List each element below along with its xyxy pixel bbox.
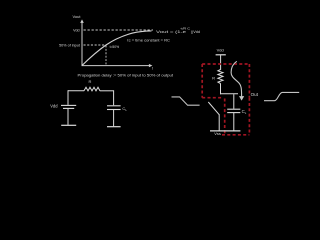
svg-text:t=50%: t=50% [110,45,120,49]
inverter model: switch wire to Vss [218,114,220,131]
inverter model: wire Vdd to resistor [220,55,222,70]
graph t=50% vertical dashed line [105,46,107,66]
inverter model: capacitor C bottom plate [227,112,240,114]
RC circuit: top wire left segment [68,90,84,92]
graph x-axis arrowhead [149,64,153,67]
output waveform (rising edge) [264,92,299,100]
svg-text:Propagation delay := 50% of in: Propagation delay := 50% of input to 50%… [78,73,175,77]
svg-text:Vout: Vout [72,14,81,19]
RC circuit: top wire right segment [100,90,114,92]
inverter model: capacitor stem bottom [233,113,235,131]
RC circuit: capacitor CL top plate [107,105,121,107]
svg-text:)|Vdd: )|Vdd [191,30,200,34]
RC circuit: battery short plate [63,107,74,109]
RC circuit: capacitor CL bottom plate [107,109,121,111]
inverter model: capacitor stem top [233,94,235,109]
svg-text:50% of input: 50% of input [59,44,80,48]
RC circuit: wire capacitor to ground [113,110,115,126]
svg-text:Vdd: Vdd [217,48,224,53]
svg-text:Vdd: Vdd [73,29,79,33]
svg-text:R: R [212,75,215,80]
inverter model: capacitor C top plate [227,108,240,110]
graph Vdd level dashed line [84,29,154,31]
RC circuit: wire down from Vdd source top [67,90,69,105]
graph exponential charging curve [82,31,152,66]
RC circuit: battery long plate [61,104,76,106]
current flow curved arrow [231,61,242,96]
RC circuit: wire down to capacitor [113,90,115,105]
graph y-axis arrowhead [80,19,84,23]
inverter model: resistor R zigzag [218,70,223,84]
RC circuit: ground bar left [61,124,76,126]
svg-text:Out: Out [251,92,259,97]
graph y-axis (Vout) [81,22,83,67]
inverter model: open switch lever (NMOS off) [208,102,219,115]
svg-text:t: t [152,67,153,71]
svg-text:R: R [89,79,92,84]
inverter model: Vss rail [210,130,240,132]
inverter model: output node wire [220,93,238,95]
RC circuit: wire battery to ground [67,109,69,125]
RC circuit: ground bar right [107,126,121,128]
RC circuit: resistor R zigzag [84,87,100,91]
inverter model: Vdd power bar [216,54,226,56]
current flow arrowhead [239,96,244,101]
inverter model: wire resistor to output node [220,83,222,94]
svg-text:Vss: Vss [214,131,221,136]
svg-text:Vdd: Vdd [50,104,58,109]
svg-text:τc = time constant = RC: τc = time constant = RC [127,38,170,42]
red dashed box around C (NMOS side load) [222,98,249,135]
graph x-axis (t) [82,65,151,67]
red dashed box around R (PMOS as resistor) [202,64,249,98]
graph 50% level dashed line [84,44,107,46]
svg-text:-t/R C: -t/R C [180,27,190,31]
input waveform (falling edge) [172,97,200,105]
